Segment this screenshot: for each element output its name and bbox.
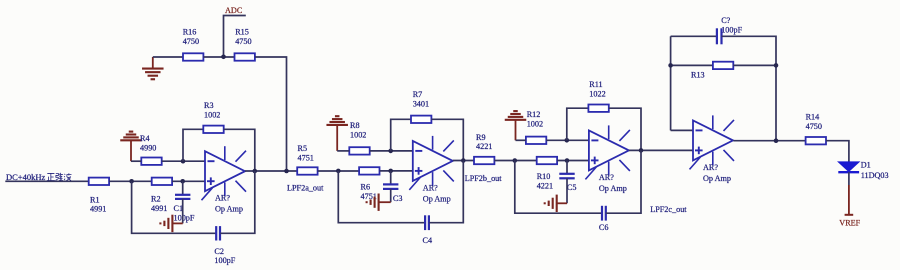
svg-text:R12: R12 [527, 110, 541, 119]
junction node B stage1 [180, 179, 185, 184]
resistor R16 4750 [183, 28, 204, 61]
junction R15 tap on output stage1 [284, 169, 289, 174]
svg-text:1022: 1022 [589, 90, 605, 99]
svg-text:R13: R13 [691, 71, 705, 80]
wire R15 down to stage1 output [255, 57, 287, 171]
svg-text:100pF: 100pF [214, 256, 235, 265]
svg-text:R3: R3 [204, 101, 214, 110]
op-amp AR? stage 1 [202, 146, 247, 214]
svg-text:3401: 3401 [413, 100, 429, 109]
svg-text:Op Amp: Op Amp [703, 174, 731, 183]
net label ADC [225, 6, 243, 15]
wire bottom loop stage2 right [429, 161, 463, 223]
resistor R7 3401 [411, 90, 431, 123]
wire R2 to op-amp [172, 180, 205, 182]
svg-text:AR?: AR? [599, 173, 614, 182]
resistor R11 1022 [588, 80, 608, 112]
wire C3 drop lower [390, 189, 392, 202]
wire feedback loop stage3 left [567, 108, 589, 140]
svg-text:C4: C4 [423, 236, 433, 245]
svg-text:C3: C3 [393, 194, 403, 203]
svg-text:11DQ03: 11DQ03 [861, 171, 889, 180]
wire C5 drop upper [566, 161, 568, 174]
junction output node stage2 [461, 158, 466, 163]
svg-text:4221: 4221 [537, 181, 553, 190]
wire C1 drop upper [182, 181, 184, 195]
svg-text:Op Amp: Op Amp [423, 194, 451, 203]
ground (below C1, rotated) [160, 215, 182, 232]
capacitor C5 [559, 174, 576, 192]
resistor R9 4221 [474, 133, 494, 164]
svg-text:AR?: AR? [215, 194, 230, 203]
junction node C stage1 [181, 159, 186, 164]
junction R13 right [774, 63, 779, 68]
svg-text:R1: R1 [90, 195, 100, 204]
wire ADC stub [224, 16, 246, 58]
wire R8 to minus input [370, 150, 413, 152]
wire input rail [5, 180, 88, 182]
wire feedback top left [671, 35, 717, 37]
svg-text:1002: 1002 [204, 111, 220, 120]
junction node B stage3 [565, 158, 570, 163]
svg-text:VREF: VREF [839, 218, 860, 227]
svg-text:LPF2b_out: LPF2b_out [465, 174, 503, 183]
svg-text:4991: 4991 [151, 204, 167, 213]
svg-text:4750: 4750 [183, 37, 199, 46]
svg-text:R9: R9 [476, 133, 486, 142]
junction node A stage1 [129, 179, 134, 184]
svg-text:C2: C2 [214, 247, 224, 256]
wire C3 drop upper [390, 171, 392, 185]
wire bottom loop stage1 right [220, 171, 255, 233]
net label DC+40kHz sine input [6, 172, 71, 182]
svg-text:ADC: ADC [225, 6, 243, 15]
wire R9 to R10 [494, 160, 536, 162]
wire R13 branch right [733, 64, 776, 66]
wire bottom loop stage2 left [338, 171, 425, 223]
svg-text:R5: R5 [298, 144, 308, 153]
wire R16 to R15 [203, 56, 234, 58]
capacitor C? 100pF [717, 16, 743, 44]
wire feedback left leg stage4 [670, 36, 672, 130]
svg-text:AR?: AR? [703, 163, 718, 172]
svg-text:4990: 4990 [140, 144, 156, 153]
svg-text:C5: C5 [567, 183, 577, 192]
power VREF [839, 185, 860, 227]
svg-text:R2: R2 [151, 195, 161, 204]
svg-text:R7: R7 [413, 90, 423, 99]
junction R13 left [668, 63, 673, 68]
wire bottom loop stage3 left [515, 161, 602, 214]
ground (below C3, rotated) [367, 194, 391, 211]
junction node A stage2 [336, 169, 341, 174]
svg-text:LPF2c_out: LPF2c_out [650, 205, 687, 214]
wire feedback top right [722, 36, 777, 140]
wire R4 to minus input [162, 160, 205, 162]
wire output stage3 [629, 149, 693, 151]
resistor R12 1002 [526, 110, 546, 144]
wire C1 drop lower [182, 199, 184, 224]
resistor R1 4991 [89, 178, 109, 214]
wire feedback loop stage3 right [609, 108, 641, 150]
diode D1 11DQ03 [838, 161, 888, 180]
svg-text:R6: R6 [361, 182, 371, 191]
svg-text:1002: 1002 [350, 131, 366, 140]
wire R14 to diode [826, 141, 849, 162]
wire R1 to R2 [109, 180, 152, 182]
svg-text:C1: C1 [174, 204, 184, 213]
net label LPF2c_out [650, 205, 687, 214]
svg-text:4221: 4221 [476, 142, 492, 151]
wire feedback loop stage1 left [183, 129, 203, 161]
wire bottom loop stage3 right [606, 150, 641, 213]
net label LPF2b_out [465, 174, 503, 183]
svg-text:C?: C? [721, 16, 730, 25]
resistor R10 4221 [537, 157, 557, 191]
ground (below C5, rotated) [545, 195, 567, 212]
wire minus input stage4 [671, 129, 693, 131]
resistor R13 [691, 62, 733, 80]
wire output stage1 [245, 170, 297, 172]
junction output node stage4 [774, 138, 779, 143]
svg-text:C6: C6 [599, 223, 609, 232]
op-amp AR? stage 3 [585, 125, 630, 192]
wire bottom loop stage1 left [132, 181, 216, 233]
svg-text:4750: 4750 [235, 37, 251, 46]
wire R5 to R6 [318, 170, 360, 172]
op-amp AR? stage 2 [409, 136, 454, 204]
resistor R14 4750 [806, 112, 826, 144]
junction node A stage3 [513, 158, 518, 163]
svg-text:100pF: 100pF [721, 25, 742, 34]
junction at ADC divider [221, 55, 226, 60]
capacitor C2 100pF [214, 226, 235, 265]
wire feedback loop stage2 left [391, 119, 411, 151]
net label LPF2a_out [287, 184, 324, 193]
junction node C stage2 [388, 149, 393, 154]
svg-text:Op Amp: Op Amp [215, 205, 243, 214]
svg-text:R14: R14 [806, 112, 820, 121]
wire feedback loop stage2 right [431, 119, 463, 160]
wire feedback loop stage1 right [224, 129, 255, 171]
svg-text:AR?: AR? [423, 183, 438, 192]
resistor R5 4751 [297, 144, 317, 175]
op-amp AR? stage 4 [690, 115, 735, 182]
resistor R15 4750 [235, 28, 255, 61]
svg-text:4991: 4991 [90, 205, 106, 214]
svg-text:4750: 4750 [806, 122, 822, 131]
svg-text:R4: R4 [140, 134, 150, 143]
capacitor C6 [599, 206, 609, 232]
junction node B stage2 [388, 169, 393, 174]
capacitor C3 [383, 184, 402, 203]
junction output node stage3 [639, 148, 644, 153]
svg-text:R11: R11 [589, 80, 602, 89]
ground (above R8) [326, 116, 348, 151]
svg-text:D1: D1 [861, 161, 871, 170]
svg-text:4751: 4751 [298, 154, 314, 163]
capacitor C4 [423, 215, 433, 245]
svg-text:LPF2a_out: LPF2a_out [287, 184, 324, 193]
junction node C stage3 [565, 138, 570, 143]
wire ground stem to R4 [131, 160, 141, 162]
wire R13 branch left [671, 64, 713, 66]
svg-text:R15: R15 [235, 28, 249, 37]
svg-text:R8: R8 [350, 121, 360, 130]
wire R12 to minus input [546, 139, 589, 141]
resistor R4 4990 [140, 134, 162, 165]
wire output stage2 [453, 160, 474, 162]
resistor R3 1002 [203, 101, 223, 133]
svg-text:R10: R10 [537, 172, 551, 181]
wire C5 drop lower [566, 178, 568, 203]
svg-text:1002: 1002 [527, 120, 543, 129]
resistor R8 1002 [349, 121, 369, 154]
wire R10 to op-amp [557, 160, 589, 162]
svg-text:Op Amp: Op Amp [599, 184, 627, 193]
capacitor C1 100pF [174, 195, 195, 223]
wire output stage4 [733, 140, 805, 142]
wire diode to VREF [848, 172, 850, 185]
resistor R6 4751 [359, 167, 379, 201]
resistor R2 4991 [151, 178, 172, 214]
junction output node stage1 [253, 169, 258, 174]
wire ground stem to R12 [516, 139, 526, 141]
wire R6 to op-amp [380, 170, 413, 172]
ground (above R4) [120, 132, 142, 162]
svg-text:100pF: 100pF [174, 214, 195, 223]
ground (above R12) [505, 111, 527, 140]
wire ground stem to R8 [337, 150, 349, 152]
svg-text:R16: R16 [183, 28, 197, 37]
wire ground to R16 [153, 56, 183, 58]
ground (left of R16) [142, 57, 164, 79]
